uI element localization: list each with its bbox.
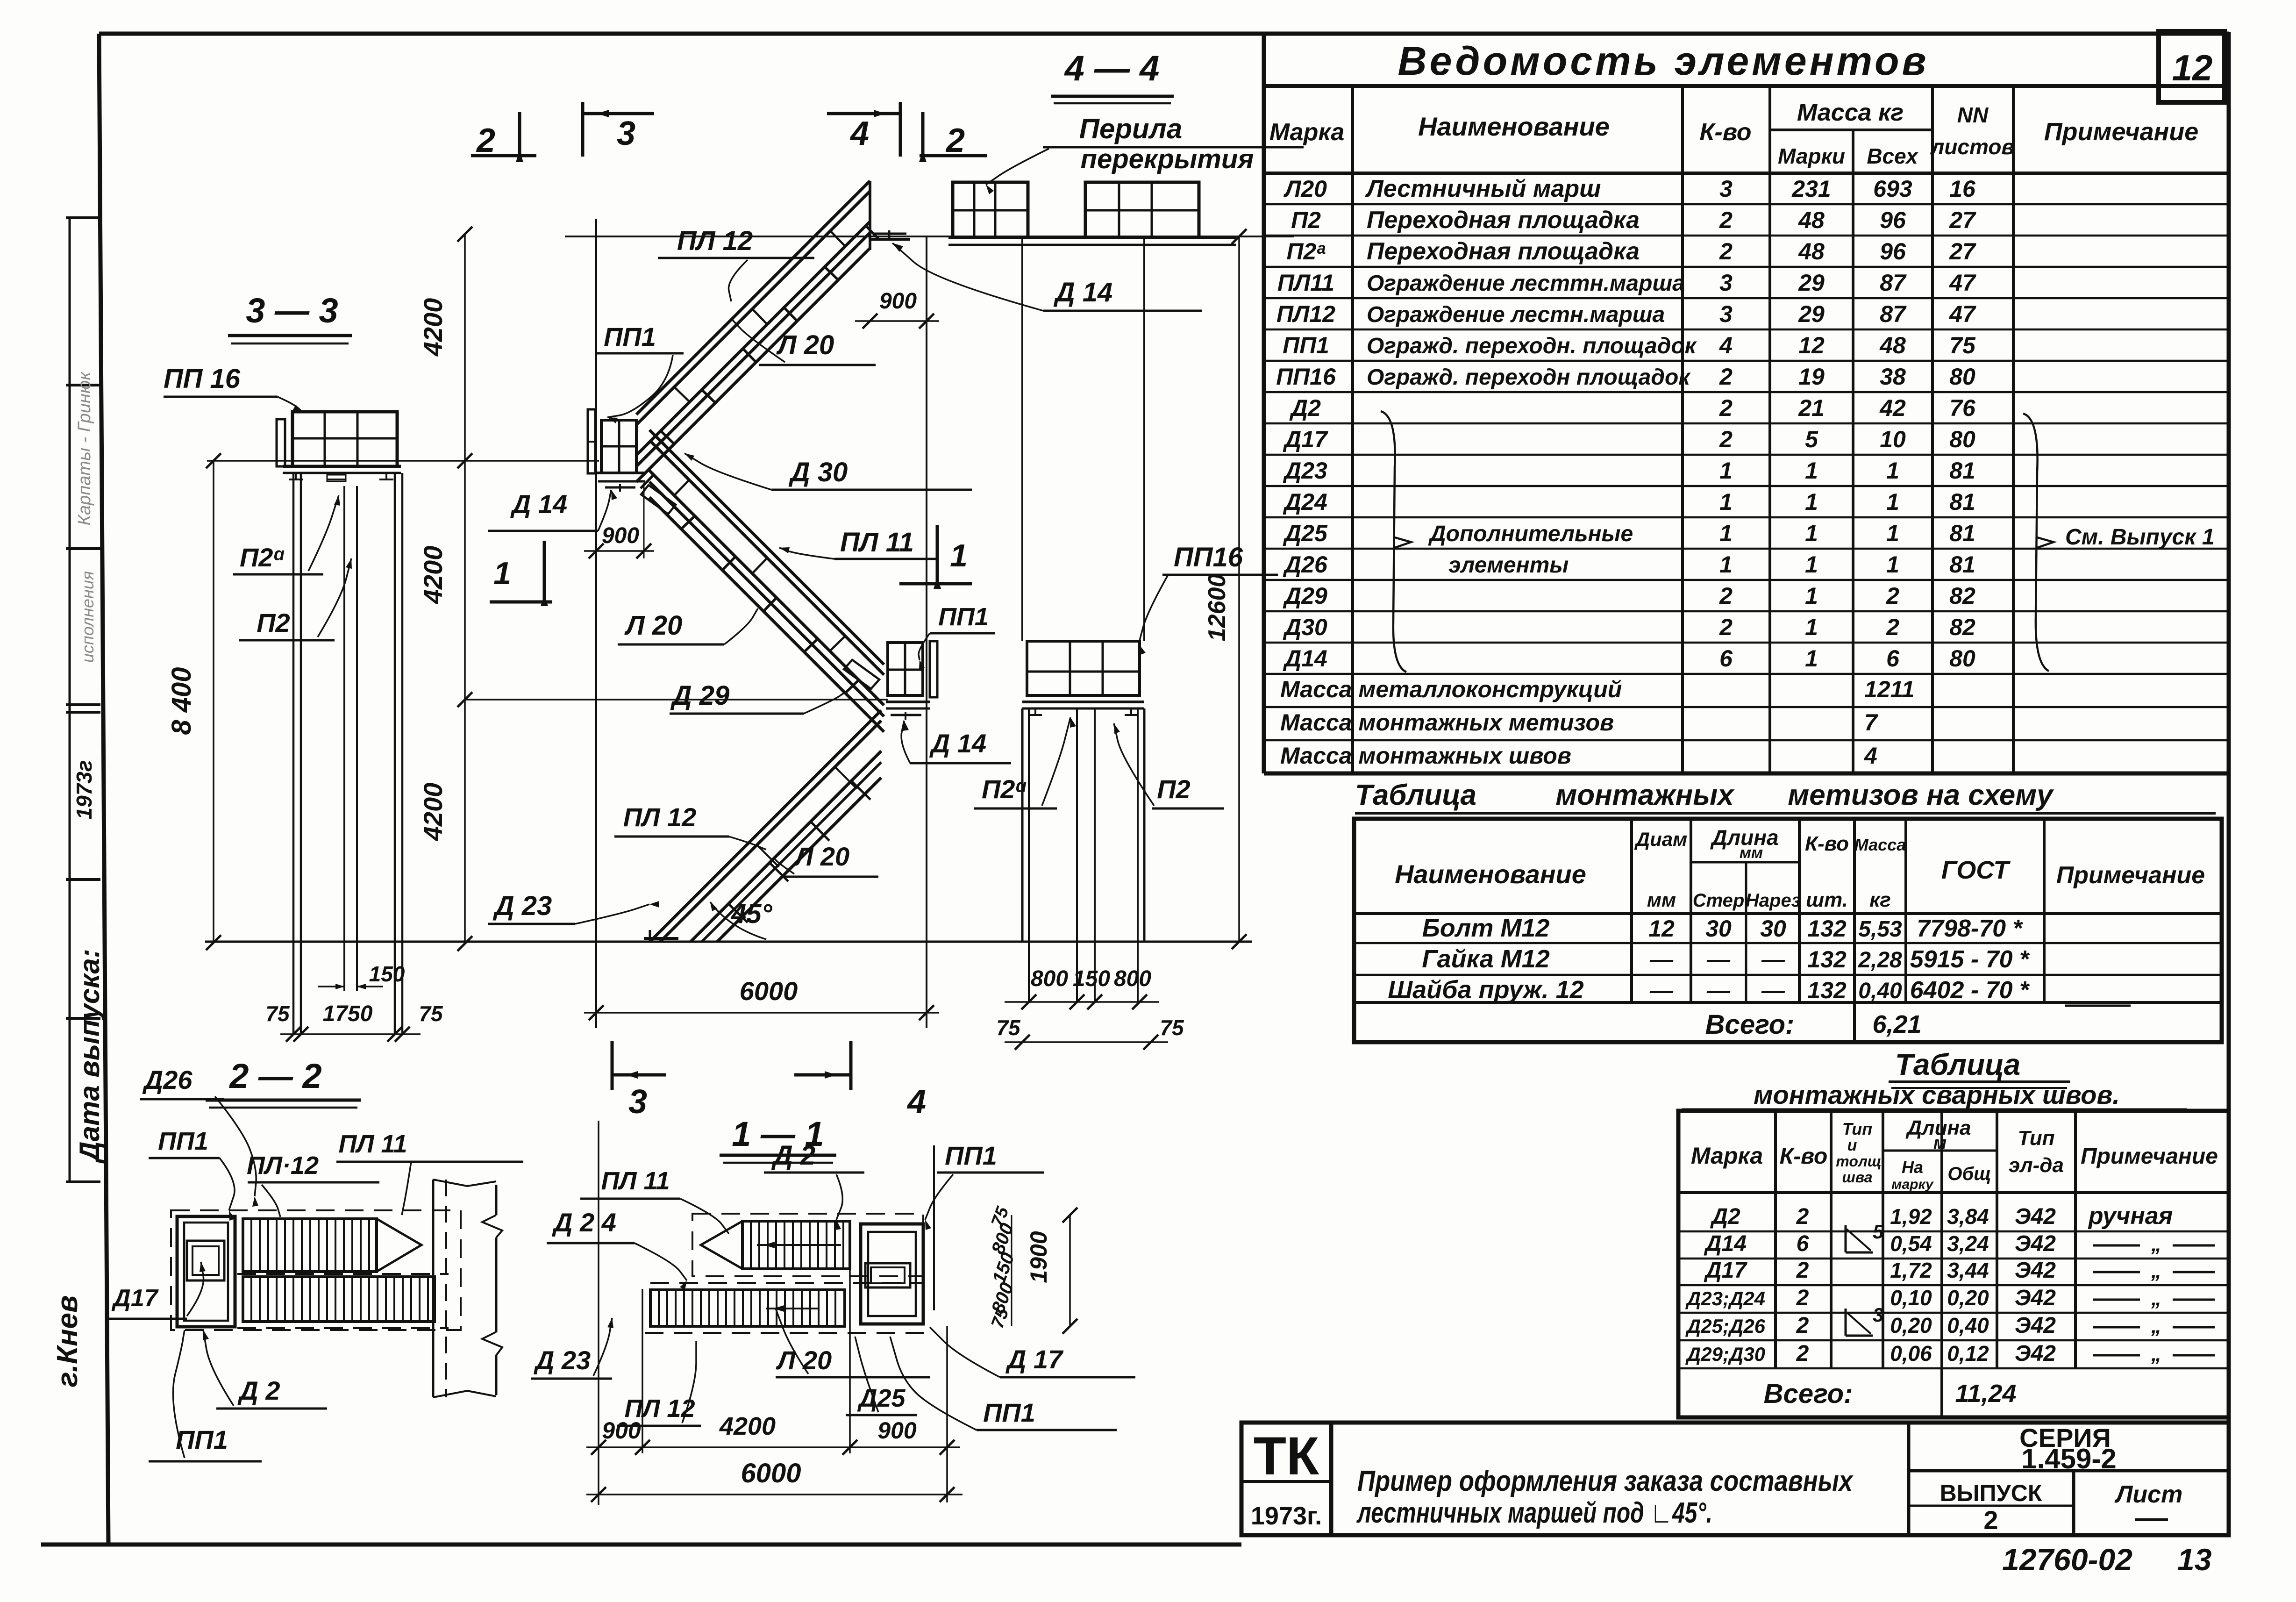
svg-text:80: 80 [1949, 364, 1975, 390]
section 4-4 left railing panel [953, 182, 1028, 237]
svg-text:Э42: Э42 [2015, 1231, 2056, 1256]
svg-text:87: 87 [1880, 301, 1907, 327]
svg-text:45°: 45° [731, 899, 773, 929]
section 1-1 dashed outline upper [692, 1214, 923, 1276]
svg-text:0,54: 0,54 [1890, 1231, 1932, 1256]
svg-text:Д2: Д2 [1710, 1204, 1740, 1229]
right-mid platform railing end view [930, 641, 937, 697]
section mark 1 left [490, 601, 552, 604]
svg-text:Д25: Д25 [1283, 520, 1328, 546]
svg-text:Наименование: Наименование [1395, 859, 1586, 889]
svg-text:Д25;Д26: Д25;Д26 [1685, 1315, 1766, 1337]
element table bottom line [1264, 772, 2229, 776]
svg-text:П2ᵃ: П2ᵃ [1287, 238, 1326, 265]
svg-text:П2ᵅ: П2ᵅ [240, 543, 285, 572]
section 2-2 beam column [432, 1180, 435, 1397]
svg-text:6,21: 6,21 [1872, 1010, 1921, 1038]
svg-text:Д25: Д25 [857, 1384, 906, 1412]
svg-text:38: 38 [1880, 364, 1906, 390]
svg-text:Диам: Диам [1634, 828, 1687, 850]
svg-text:12600: 12600 [1204, 574, 1231, 642]
dimension 900 mid [643, 483, 645, 558]
svg-text:„: „ [2151, 1315, 2161, 1337]
sheet frame left line [99, 34, 108, 1545]
section 2-2 left platform [177, 1216, 235, 1327]
svg-text:Э42: Э42 [2015, 1204, 2056, 1229]
svg-text:3,44: 3,44 [1947, 1258, 1989, 1282]
svg-text:75: 75 [1160, 1016, 1184, 1040]
svg-text:Тип: Тип [1842, 1119, 1873, 1138]
svg-text:75: 75 [996, 1016, 1021, 1040]
svg-text:Примечание: Примечание [2081, 1144, 2218, 1169]
mid-left platform deck [595, 472, 645, 474]
section 4-4 deck [948, 236, 1236, 239]
svg-text:6: 6 [1797, 1231, 1809, 1256]
weld symbol 3 [1845, 1309, 1847, 1336]
section 1-1 lower flight [650, 1290, 845, 1326]
svg-text:ПЛ 12: ПЛ 12 [677, 226, 753, 256]
svg-text:2: 2 [1796, 1313, 1809, 1338]
apex post [869, 181, 871, 250]
svg-text:1: 1 [1805, 458, 1818, 484]
section 2-2 lower flight [243, 1277, 435, 1322]
svg-text:5: 5 [1873, 1221, 1884, 1243]
svg-text:1: 1 [1805, 614, 1818, 640]
svg-text:Дата выпуска:: Дата выпуска: [74, 949, 105, 1164]
svg-text:16: 16 [1949, 176, 1976, 202]
svg-text:лестничных маршей под ∟45°: лестничных маршей под ∟45°. [1356, 1497, 1712, 1529]
svg-text:„: „ [2151, 1287, 2161, 1310]
svg-text:Шайба пруж. 12: Шайба пруж. 12 [1388, 976, 1583, 1004]
svg-text:кг: кг [1869, 888, 1891, 911]
svg-text:1: 1 [1805, 645, 1818, 672]
svg-text:Л 20: Л 20 [776, 330, 834, 360]
left margin vertical line [69, 218, 71, 1182]
weld table header [1774, 1111, 1777, 1368]
svg-text:Д23;Д24: Д23;Д24 [1685, 1287, 1765, 1309]
svg-text:Примечание: Примечание [2044, 118, 2199, 146]
svg-text:47: 47 [1949, 301, 1976, 327]
svg-text:ВЫПУСК: ВЫПУСК [1940, 1480, 2042, 1506]
svg-text:0,40: 0,40 [1858, 979, 1902, 1003]
svg-text:—: — [1761, 946, 1785, 973]
svg-text:ПП1: ПП1 [158, 1127, 208, 1155]
svg-text:Марки: Марки [1778, 144, 1845, 168]
svg-text:7: 7 [1864, 709, 1878, 736]
svg-text:NN: NN [1957, 103, 1989, 127]
svg-text:„: „ [2151, 1259, 2161, 1282]
svg-text:5,53: 5,53 [1858, 917, 1902, 942]
section 1-1 landing band [650, 1282, 923, 1284]
svg-text:Масса металлоконструкций: Масса металлоконструкций [1280, 676, 1622, 702]
svg-text:исполнения: исполнения [78, 571, 97, 663]
left margin tick marks [66, 216, 100, 219]
svg-text:Нарез: Нарез [1746, 890, 1801, 911]
svg-text:Д 23: Д 23 [534, 1345, 591, 1375]
svg-text:1973г: 1973г [72, 760, 96, 820]
svg-text:2: 2 [1796, 1204, 1809, 1229]
svg-text:900: 900 [602, 523, 639, 548]
svg-text:г.Кнев: г.Кнев [51, 1295, 84, 1387]
weld table rows [1678, 1230, 2229, 1233]
dimension 6000 elevation [584, 1012, 939, 1014]
svg-text:Д 2 4: Д 2 4 [552, 1208, 616, 1237]
title block main box [1331, 1423, 2229, 1535]
mid-left platform railing end view [588, 409, 595, 473]
svg-text:1.459-2: 1.459-2 [2021, 1443, 2117, 1474]
svg-text:900: 900 [602, 1417, 641, 1444]
metiz table header [1630, 819, 1633, 1002]
svg-text:12760-02: 12760-02 [2002, 1542, 2132, 1577]
dimension 1900 section 1-1 [1069, 1215, 1071, 1326]
svg-text:П2ᵅ: П2ᵅ [982, 774, 1027, 804]
svg-text:Лист: Лист [2114, 1481, 2183, 1508]
svg-text:монтажных сварных швов.: монтажных сварных швов. [1754, 1080, 2120, 1109]
svg-text:2: 2 [945, 122, 965, 159]
svg-text:96: 96 [1880, 207, 1906, 233]
svg-text:3: 3 [1719, 301, 1733, 327]
left wall line [595, 219, 597, 1028]
svg-text:ПП16: ПП16 [1276, 364, 1336, 390]
svg-text:Таблица: Таблица [1355, 779, 1476, 811]
svg-text:3: 3 [1719, 270, 1733, 296]
svg-text:ручная: ручная [2088, 1202, 2173, 1230]
svg-text:Всех: Всех [1867, 144, 1919, 168]
sheet frame top line [99, 32, 2229, 36]
weld table frame [1678, 1111, 2229, 1417]
ground line [205, 941, 1252, 943]
svg-text:2: 2 [1719, 207, 1733, 233]
title block seria box [1907, 1423, 1911, 1535]
svg-text:Д14: Д14 [1704, 1231, 1747, 1256]
svg-text:Ограждение лестн.марша: Ограждение лестн.марша [1367, 302, 1665, 327]
svg-text:мм: мм [1647, 889, 1676, 911]
svg-text:82: 82 [1949, 614, 1975, 640]
svg-text:2: 2 [1796, 1341, 1809, 1366]
section 1-1 bolt box [865, 1263, 910, 1287]
svg-text:1: 1 [1886, 551, 1899, 578]
svg-text:Д17: Д17 [111, 1285, 158, 1312]
svg-text:3: 3 [1719, 176, 1733, 202]
sheet frame right line [2227, 32, 2231, 1536]
dimension 800 150 800 [1005, 1001, 1159, 1003]
svg-text:29: 29 [1798, 301, 1825, 327]
D14 bracket right-mid [891, 714, 921, 716]
element table title row [1262, 34, 1266, 773]
svg-text:0,40: 0,40 [1947, 1313, 1989, 1337]
svg-text:19: 19 [1798, 364, 1825, 390]
mid-left platform [601, 420, 636, 473]
svg-text:Д 14: Д 14 [929, 729, 986, 758]
right column small hooks [1029, 714, 1042, 716]
svg-text:3,84: 3,84 [1947, 1204, 1989, 1229]
flight C foot [644, 937, 678, 940]
section 3-3 column lines [292, 473, 295, 1034]
svg-text:4200: 4200 [418, 783, 448, 842]
svg-text:Болт М12: Болт М12 [1422, 914, 1550, 942]
svg-text:800: 800 [1031, 966, 1068, 991]
svg-text:2,28: 2,28 [1858, 948, 1902, 973]
svg-text:0,12: 0,12 [1947, 1341, 1989, 1366]
svg-text:ПП16: ПП16 [1174, 542, 1243, 572]
svg-text:1: 1 [1805, 551, 1818, 578]
svg-text:12: 12 [1798, 332, 1825, 358]
svg-text:4200: 4200 [418, 298, 448, 357]
svg-text:27: 27 [1949, 207, 1976, 233]
svg-text:1: 1 [493, 556, 511, 591]
svg-text:231: 231 [1791, 176, 1831, 202]
svg-text:5915 - 70 *: 5915 - 70 * [1910, 946, 2030, 973]
element table header [1264, 172, 2229, 175]
svg-text:900: 900 [877, 1417, 917, 1444]
dimension 75 75 right column [1005, 1041, 1168, 1043]
section mark 4 bottom [794, 1073, 849, 1077]
svg-text:шт.: шт. [1806, 888, 1848, 911]
svg-text:1: 1 [1886, 520, 1899, 546]
svg-text:1: 1 [1719, 489, 1733, 515]
svg-text:монтажных: монтажных [1555, 779, 1735, 811]
section mark 2 top-left [471, 154, 536, 157]
svg-text:30: 30 [1705, 915, 1732, 942]
section 2-2 upper flight [243, 1219, 377, 1272]
svg-text:ТК: ТК [1254, 1426, 1319, 1486]
svg-text:12: 12 [2172, 47, 2213, 88]
svg-text:Переходная площадка: Переходная площадка [1367, 207, 1640, 234]
svg-text:П2: П2 [1157, 774, 1190, 804]
svg-text:„: „ [2151, 1233, 2161, 1256]
dimension 8400 [213, 461, 214, 943]
svg-text:12: 12 [1648, 915, 1675, 942]
svg-text:2: 2 [1719, 614, 1733, 640]
section 4-4 right railing panel [1085, 182, 1199, 237]
svg-text:ПЛ11: ПЛ11 [1277, 270, 1334, 296]
svg-text:2: 2 [476, 122, 495, 159]
svg-text:Общ: Общ [1947, 1164, 1991, 1184]
svg-text:Д 14: Д 14 [1053, 277, 1113, 308]
svg-text:и: и [1847, 1137, 1857, 1154]
svg-text:П2: П2 [257, 608, 290, 637]
svg-text:Д17: Д17 [1704, 1258, 1747, 1283]
svg-text:4: 4 [906, 1083, 926, 1121]
svg-text:—: — [1706, 946, 1731, 973]
svg-text:132: 132 [1807, 946, 1847, 973]
svg-text:1,72: 1,72 [1890, 1258, 1932, 1282]
svg-text:3 — 3: 3 — 3 [246, 291, 338, 330]
svg-text:К-во: К-во [1805, 832, 1849, 855]
metiz table total row [1853, 1002, 1856, 1042]
svg-text:ПЛ 11: ПЛ 11 [601, 1167, 670, 1195]
svg-text:29: 29 [1798, 270, 1825, 296]
connector piece D29 at flight B foot [844, 660, 879, 689]
section 2-2 dashed outline [171, 1210, 461, 1330]
svg-text:30: 30 [1760, 915, 1786, 942]
svg-text:Стер: Стер [1693, 890, 1745, 911]
svg-text:1: 1 [1719, 520, 1733, 546]
svg-text:Переходная площадка: Переходная площадка [1367, 238, 1640, 265]
svg-text:Огражд. переходн площадок: Огражд. переходн площадок [1367, 365, 1691, 390]
svg-text:75: 75 [1949, 332, 1976, 358]
svg-text:Масса: Масса [1854, 835, 1906, 854]
svg-text:Д24: Д24 [1283, 489, 1327, 515]
svg-text:13: 13 [2177, 1542, 2211, 1577]
D14 bracket at apex [873, 233, 906, 235]
svg-text:Д 30: Д 30 [788, 457, 848, 487]
svg-text:Э42: Э42 [2015, 1258, 2056, 1283]
section 1-1 right platform [861, 1224, 923, 1324]
svg-text:1: 1 [1719, 458, 1733, 484]
svg-text:Огражд. переходн. площадок: Огражд. переходн. площадок [1367, 334, 1697, 358]
svg-text:1: 1 [1886, 458, 1899, 484]
svg-text:Д2: Д2 [1289, 395, 1321, 421]
svg-text:0,20: 0,20 [1890, 1313, 1932, 1337]
svg-text:8 400: 8 400 [166, 667, 197, 735]
svg-text:2: 2 [1719, 583, 1733, 609]
svg-text:Ограждение лесттн.марша: Ограждение лесттн.марша [1367, 271, 1685, 296]
svg-text:1: 1 [1805, 520, 1818, 546]
right column elevation [1021, 236, 1023, 641]
svg-text:2 — 2: 2 — 2 [228, 1057, 321, 1095]
svg-text:Таблица: Таблица [1895, 1048, 2020, 1081]
svg-text:4: 4 [849, 115, 869, 152]
svg-text:Л 20: Л 20 [776, 1345, 832, 1375]
svg-text:Д26: Д26 [143, 1065, 193, 1094]
section mark 3 bottom [613, 1073, 666, 1077]
svg-text:К-во: К-во [1780, 1144, 1828, 1169]
svg-text:Наименование: Наименование [1418, 112, 1610, 141]
svg-text:2: 2 [1886, 583, 1899, 609]
svg-text:К-во: К-во [1699, 119, 1751, 146]
svg-text:6: 6 [1719, 645, 1733, 672]
svg-text:87: 87 [1880, 270, 1907, 296]
svg-text:3: 3 [617, 115, 635, 152]
svg-text:2: 2 [1719, 426, 1733, 452]
svg-text:ПП1: ПП1 [938, 603, 989, 631]
svg-text:0,06: 0,06 [1890, 1341, 1932, 1366]
svg-text:2: 2 [1796, 1258, 1809, 1283]
svg-text:Всего:: Всего: [1764, 1379, 1853, 1409]
svg-text:марку: марку [1891, 1177, 1934, 1192]
svg-text:3,24: 3,24 [1947, 1231, 1989, 1256]
svg-text:Л20: Л20 [1283, 176, 1327, 202]
svg-text:Д23: Д23 [1283, 458, 1327, 484]
svg-text:Э42: Э42 [2015, 1341, 2056, 1366]
svg-text:Масса кг: Масса кг [1797, 99, 1904, 126]
svg-text:81: 81 [1949, 489, 1975, 515]
svg-text:42: 42 [1879, 395, 1906, 421]
svg-text:1: 1 [950, 538, 968, 573]
svg-text:Всего:: Всего: [1705, 1009, 1795, 1040]
svg-text:10: 10 [1880, 426, 1906, 452]
svg-text:Пример оформления заказа со: Пример оформления заказа составных [1357, 1465, 1854, 1497]
dim extension mid 4200 long [465, 699, 888, 701]
svg-text:4: 4 [1864, 743, 1877, 769]
svg-text:ГОСТ: ГОСТ [1941, 856, 2011, 884]
svg-text:27: 27 [1949, 238, 1976, 265]
svg-text:1: 1 [1886, 489, 1899, 515]
svg-text:82: 82 [1949, 583, 1975, 609]
svg-text:80: 80 [1949, 645, 1975, 672]
section 3-3 platform railing [292, 412, 397, 466]
svg-text:толщ: толщ [1836, 1153, 1881, 1170]
right-mid platform deck [886, 701, 930, 703]
svg-text:Э42: Э42 [2015, 1313, 2056, 1338]
svg-text:ПЛ12: ПЛ12 [1276, 301, 1335, 327]
section 3-3 hooks [289, 479, 303, 480]
section 1-1 upper flight [742, 1221, 850, 1269]
svg-text:ПП1: ПП1 [604, 322, 656, 351]
svg-text:81: 81 [1949, 458, 1975, 484]
svg-text:75: 75 [419, 1001, 443, 1026]
svg-text:листов: листов [1930, 135, 2014, 159]
svg-text:На: На [1902, 1158, 1923, 1177]
svg-text:1211: 1211 [1864, 676, 1915, 702]
svg-text:метизов на схему: метизов на схему [1788, 779, 2054, 811]
svg-text:3: 3 [1873, 1304, 1883, 1326]
svg-text:—: — [1649, 977, 1674, 1003]
svg-text:75: 75 [265, 1001, 290, 1026]
svg-text:80: 80 [1949, 426, 1975, 452]
svg-text:Д17: Д17 [1283, 426, 1328, 452]
svg-text:4 — 4: 4 — 4 [1064, 49, 1160, 88]
svg-text:ПП1: ПП1 [176, 1425, 228, 1454]
svg-text:150: 150 [1073, 966, 1110, 991]
svg-text:6: 6 [1886, 645, 1900, 672]
top floor level line [565, 236, 1294, 237]
metiz table frame [1354, 819, 2222, 1042]
svg-text:Лестничный марш: Лестничный марш [1365, 175, 1601, 202]
svg-text:0,10: 0,10 [1890, 1286, 1932, 1310]
svg-text:„: „ [2151, 1343, 2161, 1366]
svg-text:Д29: Д29 [1283, 583, 1327, 609]
flight C stair march lower [650, 710, 881, 942]
svg-text:—: — [1761, 977, 1785, 1003]
svg-text:5: 5 [1805, 426, 1818, 452]
svg-text:81: 81 [1949, 520, 1975, 546]
dimension line 4200 x3 [464, 234, 466, 944]
D14 bracket mid-left [605, 486, 635, 489]
svg-text:21: 21 [1798, 395, 1825, 421]
svg-text:1,92: 1,92 [1890, 1204, 1932, 1229]
svg-text:ПП1: ПП1 [1283, 332, 1329, 358]
section mark 4 top [827, 112, 899, 115]
dimension 12600 [1238, 236, 1240, 942]
element table row lines [1264, 203, 2229, 206]
svg-text:0,20: 0,20 [1947, 1286, 1989, 1310]
svg-text:Л 20: Л 20 [624, 610, 682, 641]
sheet frame bottom line [41, 1543, 1241, 1547]
svg-text:Масса монтажных метизов: Масса монтажных метизов [1280, 709, 1614, 736]
svg-text:См. Выпуск 1: См. Выпуск 1 [2065, 525, 2215, 550]
svg-text:Д 14: Д 14 [510, 489, 567, 519]
svg-text:ПП1: ПП1 [945, 1141, 997, 1170]
svg-text:Д29;Д30: Д29;Д30 [1685, 1343, 1765, 1365]
section mark 3 top [584, 112, 654, 115]
svg-text:96: 96 [1880, 238, 1906, 265]
svg-text:Примечание: Примечание [2056, 862, 2205, 889]
svg-text:Д 2: Д 2 [237, 1376, 280, 1405]
connector piece D30 below mid-left platform [641, 485, 676, 514]
svg-text:6000: 6000 [740, 976, 798, 1006]
svg-text:эл-да: эл-да [2009, 1154, 2064, 1177]
section 2-2 bolt box [187, 1241, 224, 1280]
section 3-3 deck [283, 465, 401, 468]
svg-text:4: 4 [1719, 332, 1733, 358]
svg-text:Д30: Д30 [1283, 614, 1327, 640]
right column platform PP16 [1027, 641, 1140, 695]
svg-text:Карпаты - Гринюк: Карпаты - Гринюк [75, 371, 94, 526]
section 3-3 railing end view [277, 419, 285, 466]
svg-text:—: — [1706, 977, 1731, 1003]
